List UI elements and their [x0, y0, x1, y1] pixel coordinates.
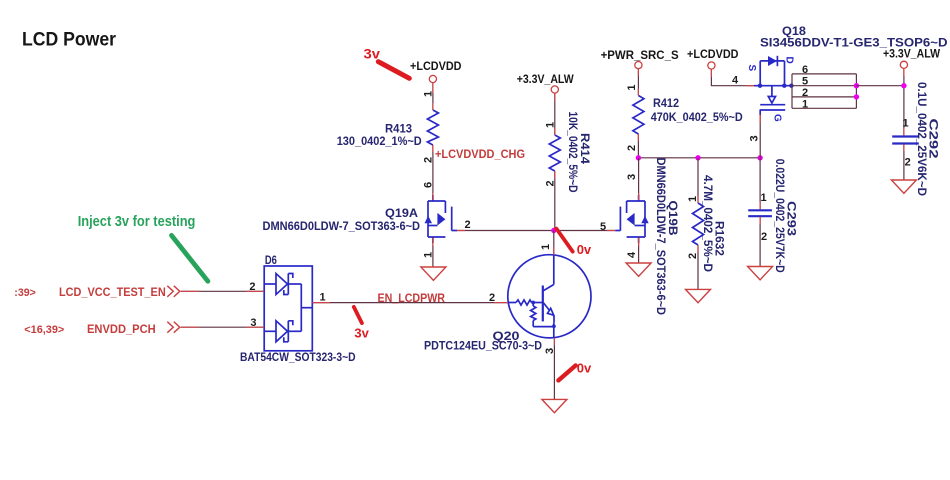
- wire C292 to ground: [903, 144, 905, 181]
- junction dot at R1632: [695, 155, 700, 160]
- svg-text:2: 2: [802, 87, 808, 99]
- svg-text:1: 1: [540, 244, 552, 250]
- power symbol +3.3V_ALW right: [883, 47, 941, 69]
- marker 0v at junction: [556, 229, 572, 252]
- wire center horizontal Q19A to Q19B: [457, 230, 615, 232]
- svg-text:G: G: [772, 114, 783, 122]
- power symbol +PWR_SRC_S: [601, 48, 679, 69]
- resistor R1632: [693, 175, 727, 272]
- junction dot at +3.3V_ALW: [901, 83, 906, 88]
- power symbol +LCDVDD: [410, 59, 462, 83]
- wire chevron to D6 pin2: [181, 290, 264, 292]
- svg-text:2: 2: [626, 145, 638, 151]
- marker 0v at Q20 emitter: [558, 366, 575, 381]
- svg-text:1: 1: [761, 192, 767, 204]
- wire +LCDVDD to R413 pin1: [432, 83, 434, 110]
- wire D6 pin1 EN_LCDPWR to Q20 base: [312, 302, 508, 304]
- svg-text:3v: 3v: [354, 326, 369, 341]
- chevron input ENVDD_PCH: [167, 322, 180, 333]
- junction dot Q18 pin5: [854, 83, 859, 88]
- svg-text:2: 2: [687, 253, 699, 259]
- mosfet Q19B: [615, 195, 648, 243]
- svg-text:1: 1: [903, 118, 909, 130]
- svg-text:LCD_VCC_TEST_EN: LCD_VCC_TEST_EN: [59, 285, 166, 299]
- svg-text:PDTC124EU_SC70-3~D: PDTC124EU_SC70-3~D: [424, 339, 542, 353]
- svg-text:D: D: [784, 57, 795, 64]
- capacitor C292: [892, 82, 940, 196]
- wire junction to Q20 collector: [553, 231, 555, 256]
- svg-text:1: 1: [320, 292, 326, 304]
- svg-text:1: 1: [687, 196, 699, 202]
- wire C293 to ground: [759, 216, 761, 266]
- wire junction to C293: [759, 158, 761, 210]
- marker 3v at +LCDVDD: [378, 62, 409, 79]
- svg-text:1: 1: [802, 99, 808, 111]
- svg-text:4: 4: [732, 75, 739, 87]
- wire junction to Q19B pin3: [638, 158, 640, 201]
- wire Q20 emitter to ground: [553, 338, 555, 400]
- mosfet Q18: [754, 56, 794, 115]
- wire R413 to Q19A pin6: [432, 145, 434, 201]
- wire horizontal node row: [638, 157, 760, 159]
- transistor Q20: [508, 255, 591, 338]
- wire Q19B pin4 to ground: [638, 237, 640, 263]
- svg-text:+LCDVDD: +LCDVDD: [687, 47, 739, 61]
- wire Q19A pin1 to ground: [432, 237, 434, 267]
- svg-text:2: 2: [761, 231, 767, 243]
- power symbol +LCDVDD right: [687, 47, 739, 69]
- green marker line: [172, 235, 208, 281]
- wire Q18 gate to junction row: [759, 113, 761, 158]
- svg-text:S: S: [746, 65, 757, 72]
- junction dot at R412: [636, 155, 641, 160]
- svg-text:ENVDD_PCH: ENVDD_PCH: [87, 322, 156, 336]
- svg-text:6: 6: [422, 182, 434, 188]
- ground under R1632: [686, 289, 711, 302]
- svg-text:C292: C292: [927, 119, 941, 159]
- svg-text:<16,39>: <16,39>: [24, 324, 64, 336]
- marker 3v on EN_LCDPWR: [354, 307, 362, 323]
- pin box bracket of Q18: [792, 74, 856, 108]
- dual diode D6 BAT54CW: [264, 266, 312, 351]
- chevron input LCD_VCC_TEST_EN: [167, 286, 180, 297]
- resistor R413: [337, 110, 439, 148]
- svg-text:+3.3V_ALW: +3.3V_ALW: [883, 47, 941, 61]
- wire R1632 to ground: [697, 245, 699, 289]
- svg-text:R1632: R1632: [713, 221, 727, 256]
- wire +3.3V_ALW to R414: [554, 93, 556, 135]
- svg-text:R412: R412: [653, 96, 679, 110]
- svg-text:3: 3: [626, 174, 638, 180]
- junction dot Q18 pin2: [854, 94, 859, 99]
- wire chevron to D6 pin3: [181, 326, 264, 328]
- svg-text:4: 4: [626, 251, 638, 258]
- wire R414 to junction: [554, 171, 556, 231]
- svg-text:5: 5: [600, 221, 606, 233]
- svg-text:10K_0402_5%~D: 10K_0402_5%~D: [566, 112, 580, 193]
- svg-text:2: 2: [905, 157, 911, 169]
- mosfet Q19A: [425, 195, 458, 243]
- wire +3.3V_ALW down to C292: [903, 69, 905, 136]
- red pin stubs: [181, 69, 904, 346]
- wire +PWR_SRC_S to R412: [637, 69, 639, 96]
- svg-text:C293: C293: [785, 201, 799, 236]
- capacitor C293: [748, 159, 798, 273]
- svg-text:LCD Power: LCD Power: [22, 29, 116, 51]
- wire +LCDVDD to Q18 pin4: [711, 69, 754, 86]
- svg-text:0v: 0v: [577, 360, 592, 375]
- svg-text:DMN66D0LDW-7_SOT363-6~D: DMN66D0LDW-7_SOT363-6~D: [263, 219, 421, 233]
- svg-text:EN_LCDPWR: EN_LCDPWR: [378, 291, 446, 305]
- svg-text:1: 1: [544, 122, 556, 128]
- svg-text:3v: 3v: [364, 47, 381, 62]
- svg-text:Inject 3v for testing: Inject 3v for testing: [78, 214, 196, 230]
- svg-text:+3.3V_ALW: +3.3V_ALW: [517, 72, 575, 86]
- ground under Q19A: [421, 267, 446, 280]
- svg-text:5: 5: [802, 76, 808, 88]
- junction dot at C293: [757, 155, 762, 160]
- svg-text:1: 1: [626, 84, 638, 90]
- resistor R414: [549, 112, 592, 193]
- svg-text::39>: :39>: [14, 287, 36, 299]
- svg-text:130_0402_1%~D: 130_0402_1%~D: [337, 134, 422, 148]
- svg-text:BAT54CW_SOT323-3~D: BAT54CW_SOT323-3~D: [240, 350, 356, 364]
- svg-text:+LCVDVDD_CHG: +LCVDVDD_CHG: [435, 147, 525, 161]
- svg-text:2: 2: [465, 219, 471, 231]
- svg-text:DMN66D0LDW-7_SOT363-6~D: DMN66D0LDW-7_SOT363-6~D: [654, 158, 668, 316]
- power symbol +3.3V_ALW: [517, 72, 575, 93]
- svg-text:470K_0402_5%~D: 470K_0402_5%~D: [651, 110, 743, 124]
- svg-text:+LCDVDD: +LCDVDD: [410, 59, 462, 73]
- ground under Q19B: [626, 263, 651, 276]
- junction node 0v: [551, 228, 556, 233]
- ground under C292: [891, 180, 916, 193]
- svg-text:3: 3: [749, 135, 761, 141]
- wire R412 to junction row: [637, 134, 639, 158]
- wire junction to R1632: [697, 158, 699, 203]
- svg-text:+PWR_SRC_S: +PWR_SRC_S: [601, 48, 679, 62]
- ground under C293: [748, 267, 773, 280]
- svg-text:0v: 0v: [577, 242, 592, 257]
- wire Q18 to +3.3V_ALW: [856, 85, 904, 87]
- ground under Q20: [542, 399, 567, 412]
- resistor R412: [633, 96, 743, 135]
- svg-text:R414: R414: [578, 133, 592, 164]
- svg-text:D6: D6: [265, 253, 277, 267]
- svg-text:6: 6: [802, 64, 808, 76]
